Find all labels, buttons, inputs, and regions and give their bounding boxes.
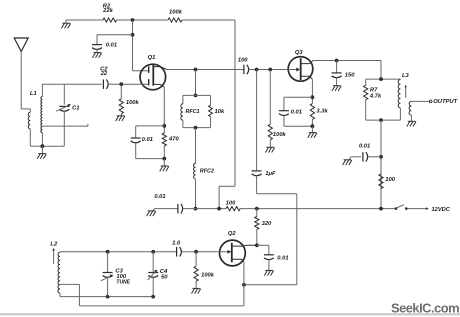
svg-text:TUNE: TUNE <box>116 279 130 285</box>
svg-text:10k: 10k <box>215 109 225 115</box>
svg-text:0.01: 0.01 <box>359 143 370 149</box>
svg-text:22k: 22k <box>102 8 113 14</box>
svg-text:100: 100 <box>238 57 248 63</box>
svg-text:0.01: 0.01 <box>154 194 165 200</box>
svg-text:100: 100 <box>226 201 236 207</box>
svg-text:100k: 100k <box>201 272 215 278</box>
svg-text:50: 50 <box>161 274 168 280</box>
svg-text:150: 150 <box>345 73 355 79</box>
svg-text:3.3k: 3.3k <box>316 109 328 115</box>
svg-text:470: 470 <box>168 136 179 142</box>
svg-text:12VDC: 12VDC <box>432 207 451 213</box>
svg-text:Q3: Q3 <box>295 50 304 56</box>
svg-text:Q1: Q1 <box>148 55 156 61</box>
svg-text:4.7k: 4.7k <box>369 93 382 99</box>
svg-text:100k: 100k <box>169 10 183 16</box>
svg-text:320: 320 <box>262 221 272 227</box>
svg-text:RFC2: RFC2 <box>200 169 214 175</box>
svg-text:RFC1: RFC1 <box>185 109 199 115</box>
svg-text:0.01: 0.01 <box>277 255 288 261</box>
svg-text:OUTPUT: OUTPUT <box>433 99 457 105</box>
svg-text:Q2: Q2 <box>228 231 237 237</box>
svg-text:0.01: 0.01 <box>106 43 117 49</box>
svg-text:100: 100 <box>385 177 395 183</box>
svg-text:C1: C1 <box>72 105 79 111</box>
svg-text:SeekIC.com: SeekIC.com <box>391 301 459 316</box>
svg-text:100k: 100k <box>273 132 287 138</box>
svg-text:0.01: 0.01 <box>291 109 302 115</box>
svg-text:1μF: 1μF <box>265 171 276 177</box>
svg-text:0.01: 0.01 <box>142 137 153 143</box>
svg-text:L1: L1 <box>30 91 37 97</box>
svg-text:L2: L2 <box>50 241 58 247</box>
svg-text:100k: 100k <box>126 100 140 106</box>
svg-text:L3: L3 <box>402 73 410 79</box>
svg-text:1.0: 1.0 <box>172 241 181 247</box>
svg-text:22: 22 <box>100 71 108 77</box>
